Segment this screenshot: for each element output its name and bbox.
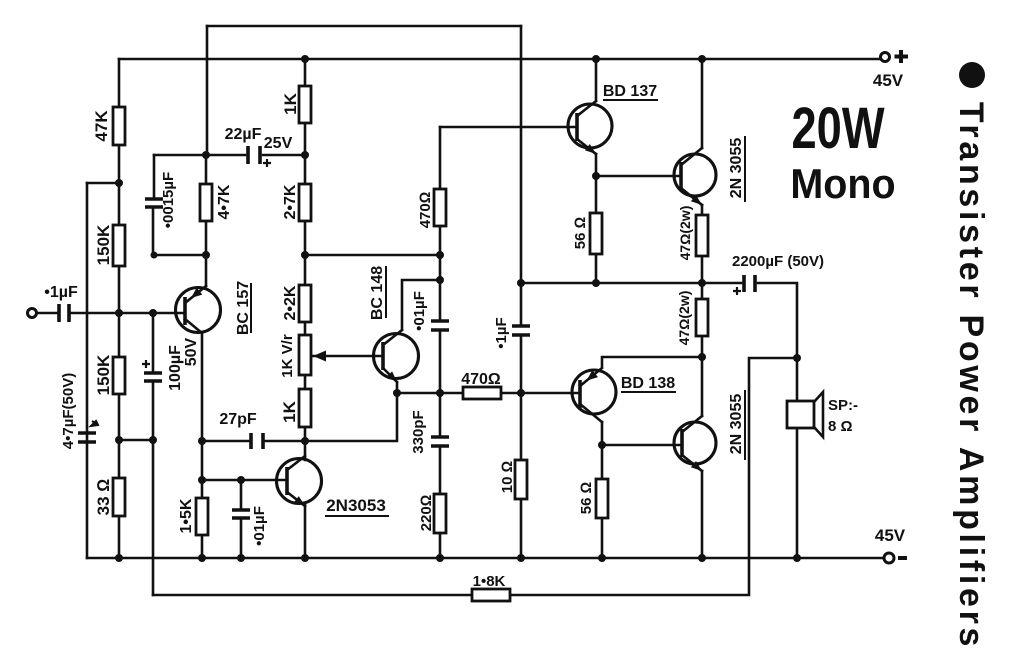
resistor 470R horizontal — [463, 387, 501, 399]
wire 100uF / feedback column x=153 — [153, 155, 154, 595]
svg-text:2N3053: 2N3053 — [326, 496, 386, 515]
wire 2N3055b collector lead — [701, 358, 704, 416]
svg-text:47Ω(2w): 47Ω(2w) — [676, 291, 692, 346]
wire bottom -45V rail — [87, 557, 885, 560]
capacitor 2200uF plus — [733, 287, 741, 295]
wire speaker branch — [796, 358, 799, 558]
svg-text:Transister Power Amplifiers: Transister Power Amplifiers — [952, 102, 990, 650]
capacitor .01uF mid — [431, 321, 449, 330]
label +45V — [895, 50, 909, 63]
svg-text:Mono: Mono — [790, 160, 895, 207]
resistor 2.7K — [299, 184, 311, 221]
underline 2N3053 — [325, 515, 389, 517]
svg-text:2N 3055: 2N 3055 — [728, 138, 745, 199]
svg-text:470Ω: 470Ω — [461, 371, 501, 388]
wire 2N3053 collector to BC148 emitter node — [305, 393, 397, 441]
svg-text:22µF: 22µF — [225, 126, 262, 143]
resistor 150K upper — [113, 225, 125, 266]
svg-text:20W: 20W — [792, 97, 886, 162]
underline BD138 — [621, 391, 676, 393]
capacitor 22uF — [248, 146, 260, 164]
wire BD137 collector lead — [595, 59, 598, 101]
wire left vertical (input ground side) — [86, 183, 89, 558]
capacitor .1uF bootstrap — [512, 326, 530, 335]
wire BD137 base line — [440, 126, 577, 129]
wire 27pF line — [202, 440, 305, 443]
svg-text:•1µF: •1µF — [44, 284, 78, 301]
capacitor .0015uF — [145, 199, 163, 207]
underline BD137 — [603, 99, 658, 101]
svg-text:100µF: 100µF — [167, 345, 184, 391]
wire 2N3055a emitter / 47R(2w)a column — [701, 205, 704, 283]
capacitor 100uF plus — [142, 360, 150, 368]
wire BC157 collector column x=202 — [201, 333, 204, 558]
wire 2N3055a collector lead — [701, 59, 704, 148]
capacitor 100uF — [144, 373, 162, 381]
resistor 47R(2w) lower — [696, 299, 708, 336]
resistor 470R vertical — [434, 189, 446, 226]
wire +45V rail — [119, 58, 881, 61]
wire .0015uF bottom jog — [154, 254, 206, 257]
wire BC148 base from pot wiper — [313, 355, 383, 358]
underline 2N3055 upper — [744, 136, 746, 202]
svg-text:10 Ω: 10 Ω — [499, 461, 516, 493]
svg-text:1K: 1K — [280, 400, 299, 422]
svg-text:45V: 45V — [875, 526, 906, 545]
svg-text:25V: 25V — [264, 135, 293, 152]
transistor 2N3053 NPN — [277, 456, 322, 506]
potentiometer 1K V/r body — [299, 335, 311, 375]
resistor 2.2K — [299, 285, 311, 322]
+45V terminal — [881, 53, 890, 62]
wire BD138 collector to 2N3055b base — [602, 422, 681, 558]
svg-text:33 Ω: 33 Ω — [94, 479, 113, 516]
svg-text:BC 157: BC 157 — [235, 281, 252, 335]
wire divider column x=119 — [118, 59, 121, 558]
svg-text:1•5K: 1•5K — [178, 498, 195, 533]
wire top jumper rail — [207, 25, 521, 28]
resistor 56R lower — [596, 479, 608, 518]
wire 47R(2w)b column — [701, 283, 704, 357]
wire 1K/pot column x=305 — [304, 59, 307, 441]
-45V terminal — [884, 553, 894, 563]
wire 47K-150K jog — [87, 182, 119, 185]
svg-text:SP:-: SP:- — [828, 397, 858, 414]
resistor 10R — [515, 460, 527, 499]
svg-text:56 Ω: 56 Ω — [578, 482, 595, 514]
svg-text:8 Ω: 8 Ω — [828, 418, 853, 435]
svg-text:330pF: 330pF — [410, 410, 427, 453]
wire 2N3053 base line — [202, 479, 287, 482]
wire BD138 emitter node line — [602, 357, 702, 366]
resistor 1.5K — [196, 498, 208, 535]
capacitor 4.7uF polarity mark — [91, 421, 98, 426]
potentiometer wiper arrow — [313, 351, 326, 362]
transistor 2N3055 lower NPN — [674, 416, 716, 471]
svg-text:•1µF: •1µF — [493, 317, 510, 348]
svg-text:27pF: 27pF — [219, 411, 257, 428]
capacitor .1uF input — [59, 304, 69, 322]
wire BC148 collector link — [402, 280, 440, 330]
resistor 150K lower — [113, 357, 125, 394]
svg-text:220Ω: 220Ω — [418, 495, 435, 532]
wire 4.7K column x=206 — [206, 26, 207, 286]
svg-text:45V: 45V — [873, 71, 904, 90]
underline BC157 — [250, 283, 252, 333]
wire 150K-100uF jog — [119, 439, 153, 442]
transistor BD138 PNP — [572, 368, 616, 422]
resistor 33R — [113, 478, 125, 516]
wire 2N3055b emitter lead — [701, 471, 704, 558]
transistor BD137 NPN — [568, 101, 612, 154]
svg-text:150K: 150K — [94, 224, 113, 265]
wire feedback loop — [153, 358, 797, 595]
resistor 1K lower — [299, 389, 311, 427]
svg-text:47K: 47K — [92, 110, 111, 142]
capacitor 330pF — [431, 437, 449, 446]
svg-text:2•2K: 2•2K — [282, 285, 299, 320]
transistor BC157 PNP — [176, 286, 221, 333]
wire 470R column x=440 — [439, 127, 442, 558]
svg-text:BD 137: BD 137 — [603, 83, 657, 100]
svg-text:56 Ω: 56 Ω — [572, 217, 589, 249]
wire BD137 emitter to 2N3055 base — [596, 154, 681, 283]
svg-text:BD 138: BD 138 — [621, 375, 675, 392]
svg-text:2•7K: 2•7K — [282, 184, 299, 219]
svg-text:2N 3055: 2N 3055 — [728, 394, 745, 455]
wire mid segment 305-440 — [305, 254, 440, 257]
sidebar bullet — [959, 62, 985, 88]
resistor 1K top — [299, 86, 311, 123]
capacitor 22uF plus — [263, 159, 271, 167]
svg-text:1K: 1K — [281, 92, 300, 114]
svg-text:BC 148: BC 148 — [369, 266, 386, 320]
input terminal — [28, 309, 37, 318]
transistor BC148 NPN — [374, 330, 419, 393]
capacitor .01uF left — [232, 510, 250, 518]
wire bootstrap column x=521 — [520, 26, 523, 558]
resistor 1.8K horizontal — [472, 589, 510, 601]
wire .01uF column x=241 — [240, 480, 243, 558]
wire output rail — [521, 283, 797, 358]
resistor 220R — [434, 494, 446, 533]
capacitor 2200uF — [744, 275, 755, 292]
resistor 47K — [113, 107, 125, 145]
underline BC148 — [385, 266, 387, 318]
svg-text:4•7K: 4•7K — [216, 184, 233, 219]
svg-text:•01µF: •01µF — [411, 291, 428, 331]
svg-text:470Ω: 470Ω — [417, 192, 434, 229]
capacitor 4.7uF — [78, 433, 96, 442]
svg-text:4•7µF(50V): 4•7µF(50V) — [60, 373, 77, 449]
resistor 47R(2w) upper — [696, 215, 708, 256]
transistor 2N3055 upper NPN — [674, 148, 716, 205]
resistor 4.7K — [200, 184, 212, 221]
speaker SP 8R — [787, 392, 823, 437]
svg-text:150K: 150K — [94, 354, 113, 395]
svg-text:•0015µF: •0015µF — [160, 172, 177, 228]
wire 2N3053 collector/emitter x=305 — [304, 441, 307, 558]
wire 22uF node line — [154, 154, 305, 157]
svg-text:1K V/r: 1K V/r — [279, 334, 296, 378]
svg-text:1•8K: 1•8K — [473, 573, 506, 590]
svg-text:•01µF: •01µF — [251, 506, 268, 546]
svg-text:47Ω(2w): 47Ω(2w) — [677, 206, 693, 261]
svg-text:50V: 50V — [183, 337, 200, 366]
underline 2N3055 lower — [744, 390, 746, 460]
capacitor 27pF — [251, 433, 263, 449]
wire input line — [36, 312, 185, 315]
resistor 56R upper — [590, 213, 602, 254]
wire 470R horizontal line — [397, 392, 580, 395]
svg-text:2200µF (50V): 2200µF (50V) — [732, 253, 824, 270]
